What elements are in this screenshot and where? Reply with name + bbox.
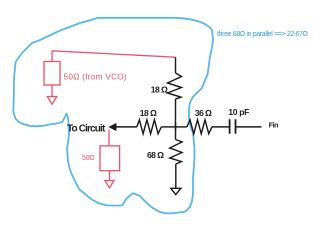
wire: R3 to junction xyxy=(161,126,175,128)
resistor R6 50 ohm (red box bottom) xyxy=(100,146,120,171)
svg-text:18 Ω: 18 Ω xyxy=(140,108,157,118)
ground (black, under R5) xyxy=(171,188,181,194)
svg-text:three 68Ω in parallel ==> 22.6: three 68Ω in parallel ==> 22.67Ω xyxy=(217,31,308,38)
annotation: hand-drawn blue region outline xyxy=(13,18,213,214)
svg-text:18 Ω: 18 Ω xyxy=(151,85,168,95)
wire: black drop from red feed to R2 xyxy=(175,57,177,73)
resistor R2 18 ohm (vertical top) xyxy=(168,73,182,99)
svg-text:Fin: Fin xyxy=(269,121,279,130)
capacitor C1 10 pF xyxy=(230,119,236,134)
wire: C1 to Fin xyxy=(236,126,262,128)
svg-text:68 Ω: 68 Ω xyxy=(147,150,164,160)
wire: R4 to capacitor C1 xyxy=(212,126,230,128)
wire: junction down to R5 xyxy=(175,127,177,140)
wire: junction to R4 xyxy=(176,126,187,128)
svg-text:To Circuit: To Circuit xyxy=(67,124,106,135)
svg-text:50Ω (from VCO): 50Ω (from VCO) xyxy=(64,72,128,81)
wire: R1 top to sloped feed line xyxy=(51,51,53,62)
resistor R5 68 ohm (vertical bottom) xyxy=(170,140,182,165)
node: center junction xyxy=(175,123,177,131)
wire: R2 bottom to junction node xyxy=(175,99,177,127)
svg-text:10 pF: 10 pF xyxy=(228,107,249,117)
arrowhead: to circuit (filled, pointing left) xyxy=(109,123,116,130)
resistor R1 50 ohm (from VCO) red box xyxy=(44,62,60,86)
resistor R4 36 ohm (horizontal right) xyxy=(187,120,212,134)
ground (red, under R6) xyxy=(105,181,114,188)
wire: R1 bottom to ground xyxy=(51,85,53,97)
wire: arrow to R3 xyxy=(116,126,137,128)
resistor R3 18 ohm (horizontal left) xyxy=(137,120,161,134)
svg-text:50Ω: 50Ω xyxy=(82,155,94,162)
wire: R6 bottom to ground xyxy=(109,171,111,181)
wire: sloped red feed line to top of 18 ohm resistor xyxy=(52,51,175,57)
wire: R5 bottom to ground xyxy=(175,164,177,188)
wire: red drop from arrow node to R6 xyxy=(108,130,110,146)
svg-text:36 Ω: 36 Ω xyxy=(195,108,212,118)
ground (red, under R1) xyxy=(47,97,57,105)
